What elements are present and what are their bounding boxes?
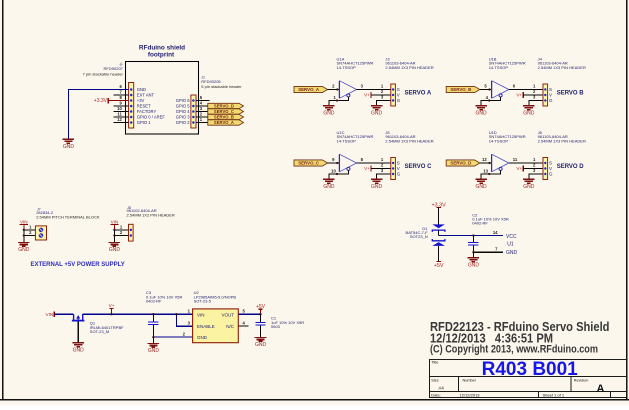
svg-text:Revision: Revision [574,378,589,382]
pin number 1 (J5) [381,157,384,162]
svg-text:2.54MM 1X3 PIN HEADER: 2.54MM 1X3 PIN HEADER [385,65,433,70]
label J6 designator [538,130,543,135]
pin name VCC (U1) [506,234,517,240]
label J6 description [538,139,586,144]
pin number 3 (J4) [533,95,536,100]
svg-text:SERVO D: SERVO D [557,164,585,170]
label U2 designator [194,290,200,295]
pin number 4 (U2 N/C) [243,321,246,326]
svg-text:7 pin stackable header: 7 pin stackable header [83,71,124,76]
title block label Number [463,378,477,382]
svg-text:V: V [549,93,552,98]
svg-text:FACTORY: FACTORY [137,109,157,114]
pin name VOUT (U2) [221,312,234,317]
svg-text:GND: GND [476,111,488,117]
pin name V (J4) [549,93,552,98]
power port V+ [109,303,115,315]
label C2 package 0402-RF [472,220,488,225]
label U1D part SN74AHCT125PWR [489,134,526,139]
svg-text:V+: V+ [516,166,522,171]
svg-text:2.54MM 1X2 PIN HEADER: 2.54MM 1X2 PIN HEADER [127,213,175,218]
wire header G pin to GND [529,101,543,106]
wire VCC node (to U1 pin 14) [439,234,503,236]
svg-text:12: 12 [117,117,122,122]
power port V+ (servo A) [364,92,391,98]
wire U2 VOUT to +5V [238,313,260,315]
label U1D designator [489,130,497,135]
net label SERVO_C input [294,160,328,166]
capacitor C3 [148,314,158,337]
ground GND (C3) [148,343,160,354]
pin number 7 [119,90,122,95]
power port +5V (regulator output) [256,304,266,316]
svg-text:G: G [397,172,401,177]
pin number 8 [119,95,122,100]
buffer U1A (SN74AHCT125) [339,81,356,99]
wire header G pin to GND [377,101,391,106]
ground GND (servo D header) [523,179,535,190]
svg-text:+3V: +3V [137,98,145,103]
label J8 description [127,213,175,218]
svg-text:0603: 0603 [271,324,281,329]
pin number 3 (J5) [381,168,384,173]
pin number 2 (input) [332,84,335,89]
wire output pin 11 to header [509,162,543,164]
svg-text:GND: GND [371,184,383,190]
svg-text:SERVO_C: SERVO_C [214,109,234,114]
svg-text:S: S [549,161,552,166]
svg-text:14-TSSOP: 14-TSSOP [337,65,357,70]
power port V+ (servo B) [516,92,543,98]
svg-text:A: A [597,383,605,395]
svg-text:13: 13 [483,168,488,173]
svg-text:GND: GND [323,111,335,117]
sheet border left [2,0,4,400]
pin number 2 (J7) [29,230,32,235]
pin name GPIO 2 [176,120,191,125]
svg-text:GND: GND [197,335,208,340]
label U1B package 14-TSSOP [489,65,509,70]
svg-text:(C) Copyright 2013, www.RFduin: (C) Copyright 2013, www.RFduino.com [430,343,598,355]
wire VIN rail (right of Q1 to U2) [83,313,193,315]
label U1B part SN74AHCT125PWR [489,61,526,66]
label J4 part 961103-6404-AR [538,61,568,66]
pin number 3 (J3) [381,95,384,100]
pin number 3 (J6) [533,168,536,173]
title block document name R403 B001 [482,359,579,380]
svg-text:GND: GND [371,111,383,117]
pin number 14 (U1 VCC) [493,230,498,235]
svg-text:2.54MM 1X3 PIN HEADER: 2.54MM 1X3 PIN HEADER [538,139,586,144]
pin number 3 (output) [361,84,364,89]
ground GND (C2) [468,258,480,269]
svg-text:SERVO_D: SERVO_D [450,161,471,166]
title block label Size [431,378,438,382]
label Q1 package SOT-23_M [90,329,109,334]
buffer U1D (SN74AHCT125) [492,154,509,172]
pin name ENABLE (U2) [197,324,215,329]
svg-text:GPIO 5: GPIO 5 [176,104,191,109]
pin number 11 [117,112,122,117]
capacitor C2 [468,236,478,253]
svg-text:Date:: Date: [431,393,441,398]
label J8 designator [127,206,131,210]
pin number 10 (enable) [331,168,336,173]
diode D1 bottom (BAT54C half) [432,239,445,246]
label U1B designator [489,56,497,61]
label SERVO A [405,91,432,97]
label U1C designator [337,130,345,135]
svg-text:14-TSSOP: 14-TSSOP [489,139,509,144]
pin number 5 [200,95,203,100]
title text copyright [430,343,598,355]
label U1A part SN74AHCT125PWR [337,61,374,66]
svg-text:V+: V+ [516,93,522,98]
ground GND (buffer U1C enable) [323,179,335,190]
svg-text:2.54MM 1X3 PIN HEADER: 2.54MM 1X3 PIN HEADER [385,139,433,144]
wire output pin 6 to header [509,89,543,91]
svg-text:+3.3V: +3.3V [94,98,108,104]
pin name GPIO 6 [176,98,191,103]
svg-text:G: G [397,98,401,103]
wire header G pin to GND [377,174,391,179]
wire header G pin to GND [529,174,543,179]
svg-text:11: 11 [117,112,122,117]
ground GND (Q1 gate) [72,343,84,354]
svg-text:14-TSSOP: 14-TSSOP [489,65,509,70]
label U1D package 14-TSSOP [489,139,509,144]
svg-text:10: 10 [117,106,122,111]
label C3 value 0.1uF 10% 10V X5R [146,295,183,300]
pin number 12 (input) [482,157,487,162]
title block sheet value [543,393,565,398]
label SERVO C [405,164,433,170]
svg-text:SOT23_N: SOT23_N [410,234,428,239]
wire pin 5 (GPIO 6) [196,100,210,102]
RFduino shield footprint body U3 [126,62,199,135]
net label SERVO_D input [446,160,480,166]
pin number 12 [117,117,122,122]
svg-text:GND: GND [137,87,146,92]
sheet border right [626,0,628,400]
label C1 value 1uF 10% 10V X5R [271,320,304,325]
pin name EXT ANT [137,93,155,98]
svg-text:VIN: VIN [46,312,54,317]
wire enable branch to U2 pin 3 [175,313,192,326]
wire enable pin 4 to GND [481,97,501,106]
svg-text:footprint: footprint [148,51,175,58]
wire SERVO_A to buffer input [328,88,340,90]
label J1 part RFD90205 [201,79,221,84]
pin number 2 (J8) [120,230,123,235]
pin name V (J3) [397,93,400,98]
node V+ rail to C3 [152,313,154,315]
svg-text:Title: Title [431,361,438,365]
wire VIN to J8 pin 1 [113,229,128,231]
pin number 10 [117,106,122,111]
svg-text:VIN: VIN [111,220,119,225]
label J6 part 961103-6404-AR [538,134,568,139]
svg-text:ENABLE: ENABLE [197,324,215,329]
pin name GND (U2) [197,335,208,340]
label J3 designator [385,56,390,61]
pin number 7 (U1 GND) [495,246,498,251]
svg-text:A4: A4 [439,386,445,391]
pin name GPIO 1 [137,120,152,125]
ground GND (footprint) [63,139,75,150]
pin name GPIO 3 [176,115,191,120]
label J7 part 282834-2 [36,210,54,215]
pin name GPIO 5 [176,104,191,109]
svg-text:12/12/2013: 12/12/2013 [460,393,481,398]
svg-text:11: 11 [513,157,518,162]
pin number 5 (U2 VOUT) [243,309,246,314]
svg-text:0402-RF: 0402-RF [146,299,162,304]
svg-text:GPIO 2: GPIO 2 [176,120,191,125]
svg-text:G: G [549,172,553,177]
label SERVO D [557,164,585,170]
label SERVO B [557,91,585,97]
pin name V (J5) [397,166,400,171]
svg-text:U1: U1 [507,242,514,248]
label U1C part SN74AHCT125PWR [337,134,374,139]
label D1 designator [422,226,428,231]
ground GND (J8) [109,242,121,253]
svg-text:GND: GND [255,342,267,348]
svg-text:EXT ANT: EXT ANT [137,93,155,98]
label U1 designator [507,242,514,248]
wire VIN rail (left of Q1) [54,313,73,315]
wire output pin 3 to header [357,89,391,91]
svg-text:GND: GND [63,144,75,150]
wire pin 3 (GPIO 4) [196,111,208,113]
pin number 5 (input) [484,84,487,89]
pin name GND (U1) [506,250,518,256]
net label SERVO_A input [294,86,328,92]
label Q1 designator [90,321,96,326]
power port +3.3V (pin 8) [94,98,129,104]
power port +3.3V (diode) [431,202,446,208]
label J4 designator [538,56,543,61]
svg-text:10: 10 [331,168,336,173]
svg-text:VIN: VIN [197,312,205,317]
svg-text:14: 14 [493,230,498,235]
pin number 2 (U2 GND) [183,332,186,337]
svg-text:SERVO C: SERVO C [405,164,433,170]
wire pin 4 (GPIO 5) [196,105,208,107]
pin number 3 [200,106,203,111]
label J5 part 961103-6404-AR [385,134,415,139]
wire +3.3V to D1 [438,207,440,224]
pin name GPIO 4 [176,109,191,114]
pin number 1 (U2 VIN) [188,309,191,314]
label U2 part LP2985AIM5-5.0/NOPB [194,295,237,300]
label J8 part 961102-6404-AR [127,208,157,213]
svg-text:GND: GND [468,263,480,269]
pin name GND [137,87,146,92]
svg-text:GND: GND [73,348,85,354]
ground GND (servo B header) [523,106,535,117]
pin name VIN (U2) [197,312,205,317]
svg-text:V: V [397,93,400,98]
svg-text:+5V: +5V [434,263,444,269]
pin name G (J5) [397,172,401,177]
svg-text:N/C: N/C [226,324,235,329]
svg-text:Sheet 1 of 1: Sheet 1 of 1 [543,393,565,398]
wire GND rail (C3 to U2 GND) [152,336,192,338]
pin number 2 (J4) [533,89,536,94]
ground GND (servo C header) [371,179,383,190]
pin number 2 [200,112,203,117]
label Q1 part IRLML6401TRPBF [90,325,124,330]
svg-text:GPIO 4: GPIO 4 [176,109,191,114]
pin number 6 (output) [513,84,516,89]
title block frame [430,360,627,398]
label C1 designator [271,316,277,321]
label J2 description [83,71,124,76]
label J1 designator [201,75,205,79]
transistor Q1 (P-MOSFET) [72,314,85,320]
svg-text:G: G [549,98,553,103]
title text date/time [430,330,553,345]
wire terminal pin 2 to GND [23,230,36,243]
pin number 6 [119,84,122,89]
wire D1 cathode to VCC node [438,231,440,236]
svg-text:GND: GND [476,184,488,190]
label U1C package 14-TSSOP [337,139,357,144]
wire output pin 8 to header [357,162,391,164]
pin number 4 (enable) [486,95,489,100]
svg-text:R403 B001: R403 B001 [482,359,579,380]
svg-text:V: V [397,166,400,171]
svg-text:SERVO A: SERVO A [405,91,432,97]
wire pin 1 (GPIO 2) [196,122,208,124]
wire enable pin 13 to GND [481,170,501,179]
pin number 13 (enable) [483,168,488,173]
label U1A designator [337,56,345,61]
label U2 package SOT-23-5 [194,299,212,304]
svg-text:GND: GND [323,184,335,190]
regulator U2 body [193,309,239,343]
label U1A package 14-TSSOP [337,65,357,70]
pin 12 stub (GPIO 1) [114,122,129,124]
pin 11 stub (GPIO 0 / AREF) [114,116,129,118]
svg-text:S: S [549,87,552,92]
svg-text:Number: Number [463,378,477,382]
pin name S (J4) [549,87,552,92]
pin 10 stub (FACTORY) [114,111,129,113]
label J1 description [201,84,242,89]
pin name S (J3) [397,87,400,92]
wire SERVO_C to buffer input [328,162,340,164]
svg-text:SOT-23-5: SOT-23-5 [194,299,212,304]
pin number 2 (J5) [381,163,384,168]
wire D1 lower anode to +5V [438,246,440,262]
net label SERVO_A [208,120,244,125]
svg-text:V+: V+ [109,303,115,308]
net label SERVO_B [208,114,244,119]
pin number 1 [200,117,203,122]
svg-text:5 pin stackable header: 5 pin stackable header [201,84,242,89]
pin number 9 (input) [332,157,335,162]
svg-text:SERVO_C: SERVO_C [298,161,320,166]
pin name S (J6) [549,161,552,166]
svg-text:GND: GND [506,250,518,256]
pin number 1 (J3) [381,84,384,89]
pin name N/C (U2) [226,324,235,329]
wire C2 to U1 GND pin 7 [472,251,503,253]
svg-text:VIN: VIN [20,220,28,225]
sheet border bottom [0,399,629,401]
connector J8 1x2 pin header body [129,224,134,241]
label EXTERNAL +5V POWER SUPPLY [31,262,125,268]
net label SERVO_D [208,103,244,108]
svg-text:GND: GND [523,111,535,117]
svg-text:GND: GND [18,247,30,253]
wire J8 pin 2 to GND [113,230,128,243]
ground GND (buffer U1B enable) [475,106,487,117]
net label SERVO_B input [446,86,480,92]
title block date value [460,393,481,398]
svg-text:RESET: RESET [137,104,151,109]
ground GND (C1) [255,337,267,348]
title block label Date [431,393,441,398]
connector J2 7-pin stackable header [129,83,134,129]
svg-text:EXTERNAL +5V POWER SUPPLY: EXTERNAL +5V POWER SUPPLY [31,262,125,268]
svg-text:Size: Size [431,378,438,382]
wire GND rail stem [152,337,154,343]
pin 9 stub (RESET) [114,105,129,107]
ground GND (J7) [18,242,30,253]
ground GND (buffer U1D enable) [475,179,487,190]
capacitor C1 [255,314,265,337]
svg-text:SERVO_B: SERVO_B [450,87,471,92]
svg-text:V+: V+ [364,166,370,171]
connector J3 1x3 pin header [391,84,396,106]
label C2 designator [472,213,478,218]
svg-text:RFduino shield: RFduino shield [139,44,185,51]
pin number 8 (output) [361,157,364,162]
pin number 1 (J4) [533,84,536,89]
pin number 2 (J6) [533,163,536,168]
svg-text:V+: V+ [364,93,370,98]
wire pin 2 (GPIO 3) [196,116,208,118]
svg-text:SERVO B: SERVO B [557,91,585,97]
pin number 2 (J3) [381,89,384,94]
svg-text:14-TSSOP: 14-TSSOP [337,139,357,144]
pin name G (J6) [549,172,553,177]
pin number 4 [200,101,203,106]
buffer U1B (SN74AHCT125) [492,81,509,99]
pin name GPIO 0 / AREF [137,115,166,120]
pin name +3V [137,98,145,103]
svg-text:2.54MM 1X3 PIN HEADER: 2.54MM 1X3 PIN HEADER [538,65,586,70]
wire SERVO_B to buffer input [480,88,492,90]
svg-text:SERVO_A: SERVO_A [298,87,320,92]
svg-text:GPIO 3: GPIO 3 [176,115,191,120]
title block revision A [597,383,605,395]
svg-text:GND: GND [523,184,535,190]
diode D1 top (BAT54C half) [432,224,445,232]
pin number 11 (output) [513,157,518,162]
svg-text:SERVO_A: SERVO_A [214,120,234,125]
svg-text:0402-RF: 0402-RF [472,220,488,225]
pin number 1 (J7) [29,225,32,230]
wire SERVO_D to buffer input [480,162,492,164]
title block size A4 [439,386,445,391]
label D1 package SOT23_N [410,234,428,239]
svg-text:VCC: VCC [506,234,517,240]
